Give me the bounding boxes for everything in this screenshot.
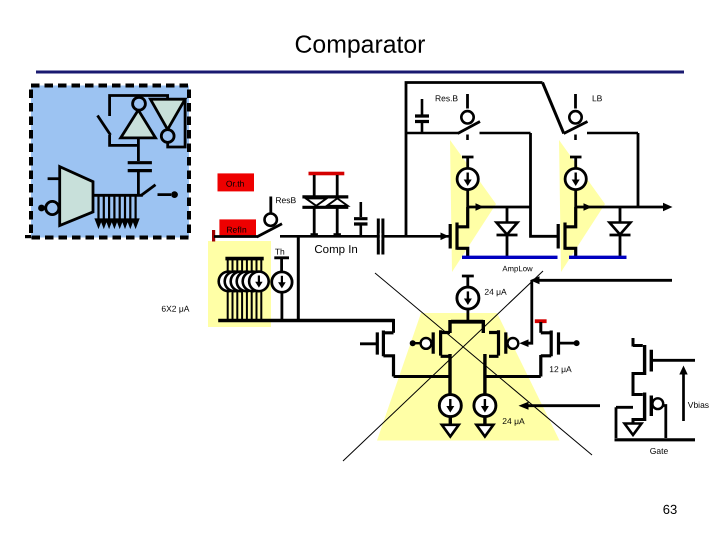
transistor M4 bubble [421,338,432,349]
current source I1 T-bar [462,157,474,169]
svg-text:24 μA: 24 μA [502,416,525,426]
wire M8 gate loop [663,406,666,439]
current source bank last circle [249,272,269,292]
transistor M4 [433,330,450,356]
wire Th to bus [280,292,283,320]
arrow feedback corner [530,276,540,284]
bus AmpLow stage2 [569,256,627,259]
bus AmpLow stage1 [462,256,558,259]
wire stage1 feedback vertical [531,133,558,236]
svg-text:Res.B: Res.B [435,93,458,103]
wire I3 to H bar [466,309,469,322]
H bar right leg [482,320,485,333]
transistor M1 [450,207,468,257]
svg-text:RefIn: RefIn [226,225,247,235]
svg-text:63: 63 [663,502,677,517]
capacitor C1 stub [421,99,424,115]
inset DAC comb [96,195,138,226]
current source I5 [474,395,496,417]
svg-text:AmpLow: AmpLow [502,264,533,273]
current source Th T-bar [274,258,289,272]
svg-text:Or.th: Or.th [226,179,245,189]
wire I1 to drain node [466,190,469,207]
svg-text:LB: LB [592,93,603,103]
svg-text:12 μA: 12 μA [549,364,572,374]
transistor M7 gate wire [651,359,695,362]
transistor M8 [645,393,652,422]
middle input network [161,172,449,327]
switch Res.B circle [461,111,473,123]
current source I3 T-bar [462,276,474,287]
switch Res.B 2 circle [265,214,277,226]
wire annotation arrow right [524,404,600,407]
coupling cap gap mask [380,233,382,240]
inset input dot [38,205,45,212]
I4 ground arrow [449,417,452,426]
transistor M5 bubble [508,338,519,349]
inset wire inverter to cap [137,138,140,161]
Vbias arrow [682,372,685,421]
switch LB circle [569,111,581,123]
DAC top bar [225,257,263,261]
transistor M5 [489,330,506,356]
diode D1 [506,207,509,257]
arrow on stage2 drain wire [584,203,593,211]
H bar left leg [448,320,451,333]
transistor M6 [541,331,559,377]
wire stage2 feedback vertical [637,133,640,207]
transistor M8 bubble [652,398,663,409]
inset wire right loop [168,99,185,147]
current source I4 arrow [449,399,451,408]
switch LB top stub [574,94,577,109]
clamp diode pair bottom bar [302,206,348,209]
transistor M4 gate stub [413,342,421,344]
M6 gate dot [574,340,580,346]
switch LB bottom stub [574,135,577,141]
capacitor C2 [354,219,368,224]
wire diagonal to LB switch [543,83,564,134]
inset capacitor [128,163,152,171]
wire M4 source to tail [448,354,451,395]
clamp diode up triangle [327,198,348,205]
wire switch1 left [405,132,458,135]
wire top horizontal [406,83,543,238]
diode D2 [619,207,622,257]
inset inverter U1 [121,110,156,138]
current source I1 arrow [467,173,469,182]
clamp diode pair top bar [302,195,348,198]
current source I4 [439,395,461,417]
clamp red top bar [309,172,345,176]
bank arrow [258,276,260,284]
wire M6 source to tail [485,375,541,378]
switch Res.B 2 top stub [269,197,272,214]
transistor M3 [377,331,393,377]
capacitor C1 [415,116,429,122]
capacitor C2 stub [359,202,362,217]
capacitor C1 lower stub [421,122,424,134]
wire stage2 output [576,206,666,209]
current source I2 arrow [575,173,577,182]
I5 ground arrow [483,417,486,426]
current source I2 [565,168,586,189]
current source I3 arrow [467,291,469,300]
top reset network [405,83,638,238]
arrow on stage1 drain wire [476,203,485,211]
clamp right lead [336,175,339,196]
switch Res.B top stub [466,94,469,109]
transistor M3 drain riser [392,319,395,333]
DAC bottom bus [218,319,394,323]
wire feedback horizontal [536,279,672,282]
transistor M2 [558,207,576,257]
current source I3 [457,287,479,309]
transistor M4 gate dot [410,340,416,346]
inset background [31,86,189,238]
clamp junction feet [311,233,318,236]
wire M5 source to tail [483,354,486,395]
cross line B [343,271,543,461]
wire M7 source to M8 [633,374,645,395]
latch highlight trapezoid [377,313,560,441]
inset comb bus wire [93,194,143,197]
latch differential pair [343,271,672,461]
arrow into M5 gate [519,339,528,347]
inset switch [98,116,139,146]
cross line A [375,273,592,455]
clamp diode down triangle [306,198,327,205]
inset wire top loop [110,96,168,117]
current source I2 T-bar [570,157,582,169]
RefIn terminal tick [212,230,215,242]
red tick M6 drain [535,319,547,323]
current source I5 arrow [484,399,486,408]
wire M3 source to tail [394,375,452,378]
svg-text:Comparator: Comparator [295,32,426,59]
inset output dot [171,191,178,198]
transistor M7 [645,345,652,375]
inset thumbnail box [25,86,189,239]
arrow stage2 output head [663,203,673,212]
svg-text:Gate: Gate [650,446,669,456]
bias output branch [615,338,710,517]
M8 source down arrow [625,424,642,436]
svg-text:Vbias: Vbias [688,400,709,410]
svg-text:Comp In: Comp In [314,244,357,256]
transistor M6 drain riser [539,322,542,333]
inset amp trapezoid [60,167,93,226]
arrow annotation head [519,402,529,410]
gate bottom wire [615,438,696,441]
switch Res.B bottom stub [466,135,469,141]
transistor M3 gate stub [360,342,377,345]
svg-text:6X2 μA: 6X2 μA [161,304,189,314]
transistor M6 gate stub [559,342,576,345]
inset wire inverter1 top stub [138,96,141,98]
transistor M7 drain stub [633,338,643,347]
clamp left lead [313,175,316,196]
inset amp bubble [46,201,59,214]
svg-text:Th: Th [275,247,285,257]
transistor M1 gate arrow [441,233,450,241]
label box RefIn [219,219,256,237]
capacitor C2 lower stub [359,224,362,236]
inset amp input wire [48,177,60,180]
highlight DAC box [208,241,271,327]
current source I1 [457,168,478,189]
wire stage1 drain node [468,206,531,209]
amplifier stages 1 and 2 [441,140,673,273]
label box Or.th [218,173,255,191]
DAC comb lines [228,259,262,321]
title rule [36,71,684,74]
switch Res.B arm [458,122,480,134]
inset switch right [141,185,171,196]
clamp left bottom lead [313,209,316,236]
current source Th [272,272,292,292]
wire switch1 right [480,132,531,135]
switch Res.B 2 arm [257,224,282,237]
wire RefIn [214,235,257,238]
switch LB arm [564,122,588,134]
stage2 highlight [559,140,605,272]
wire Comp In node [280,235,449,238]
stage1 highlight [450,140,496,272]
clamp right bottom lead [336,209,339,236]
H bar source node [451,320,483,324]
wire M8 source left box [633,420,645,425]
svg-text:24 μA: 24 μA [484,287,507,297]
inset inverter U2 bubble [161,130,174,143]
svg-text:ResB: ResB [275,195,296,205]
inset corner stub [25,235,32,238]
inset inverter U1 bubble [133,97,146,110]
wire feedback vertical [528,281,532,344]
current source bank circles [219,272,239,292]
coupling capacitor C3 [378,219,383,255]
wire switch2 right [587,132,638,135]
inset wire cap to node [137,171,140,196]
wire I2 to drain node [574,190,577,207]
wire branch to DAC bus [297,236,300,320]
wire box left [616,407,633,438]
inset inverter U2 [150,99,185,129]
current source Th arrow [281,276,283,284]
